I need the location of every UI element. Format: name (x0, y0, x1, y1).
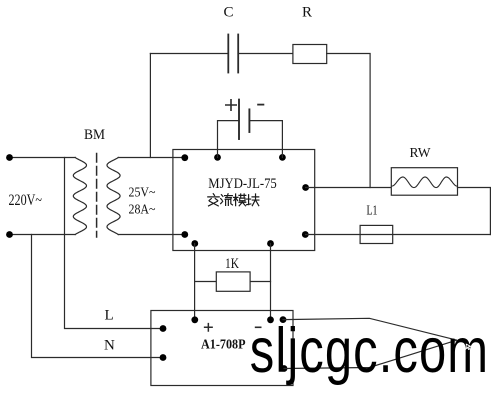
node A1 output bottom pin (281, 365, 288, 372)
inductor L1 (360, 225, 393, 243)
wire C to R (238, 53, 293, 55)
wire 1K right lead (250, 281, 270, 283)
svg-text:RW: RW (410, 146, 432, 161)
node 220V bottom terminal (6, 231, 13, 238)
node 220V top terminal (6, 154, 13, 161)
battery B1 positive plate (238, 100, 240, 139)
wire riser to RC branch (149, 54, 151, 158)
svg-text:MJYD-JL-75: MJYD-JL-75 (208, 176, 276, 192)
wire 1K left lead (195, 281, 217, 283)
node A1 output top pin (280, 316, 287, 323)
node module right-middle pin (302, 184, 309, 191)
node module right-bottom pin (302, 231, 309, 238)
transformer BM core (dashed) (96, 154, 98, 238)
wire 220V top input (10, 157, 76, 159)
transformer BM primary winding (73, 158, 86, 235)
resistor R (293, 45, 327, 64)
battery B1 wiring (218, 121, 240, 158)
node A1 plus pin (191, 316, 198, 323)
node module bottom pin 1 (191, 240, 198, 247)
node module top pin 2 (279, 154, 286, 161)
rheostat RW box (391, 168, 457, 196)
module U1 MJYD-JL-75 (173, 150, 315, 251)
wire RW loop to module (through L1) (306, 234, 491, 236)
svg-text:BM: BM (84, 127, 105, 143)
capacitor C (227, 35, 229, 73)
controller A1-708P box (151, 311, 293, 386)
rheostat RW wavy element (392, 177, 458, 188)
wire RW right down to L1 (458, 188, 491, 235)
node A1 N pin (160, 354, 167, 361)
label + A1 (205, 324, 213, 331)
svg-text:sljcgc.com: sljcgc.com (250, 315, 489, 385)
svg-text:R: R (302, 5, 312, 21)
svg-text:C: C (224, 5, 234, 21)
svg-text:1K: 1K (225, 256, 239, 272)
resistor 1K (216, 272, 250, 291)
label - A1 (256, 326, 261, 328)
label 交流模块 (drawn strokes) (208, 194, 259, 206)
svg-text:N: N (104, 338, 115, 354)
label - battery (258, 104, 263, 106)
node module bottom pin 2 (267, 240, 274, 247)
wire L vertical tap (65, 158, 164, 329)
node module top-left pin (181, 154, 188, 161)
wire R to right corner (327, 54, 370, 188)
node A1 minus pin (267, 316, 274, 323)
wire module right to RW (306, 187, 392, 189)
node module top pin 1 (214, 154, 221, 161)
svg-text:28A~: 28A~ (129, 203, 156, 218)
wire module bottom pin2 down to A1 (270, 244, 272, 320)
wire secondary bottom to module (118, 234, 185, 236)
wire 220V bottom input (10, 234, 76, 236)
svg-text:A1-708P: A1-708P (201, 338, 246, 353)
svg-text:L: L (105, 308, 114, 324)
wire top to capacitor (150, 53, 228, 55)
welding gun upper lead (283, 318, 457, 340)
svg-text:220V~: 220V~ (9, 192, 43, 209)
cursor arrow at tip (466, 344, 471, 349)
svg-text:L1: L1 (367, 203, 378, 218)
transformer BM secondary winding (107, 158, 120, 235)
wire N vertical tap (32, 235, 164, 358)
welding gun lower lead (284, 340, 457, 368)
battery B1 negative plate (248, 109, 250, 132)
label + battery (226, 100, 236, 110)
node module bottom-left pin (181, 231, 188, 238)
node A1 L pin (160, 325, 167, 332)
wire module bottom pin1 down to A1 (194, 244, 196, 320)
svg-text:25V~: 25V~ (129, 186, 156, 201)
wire secondary top to module (118, 157, 185, 159)
